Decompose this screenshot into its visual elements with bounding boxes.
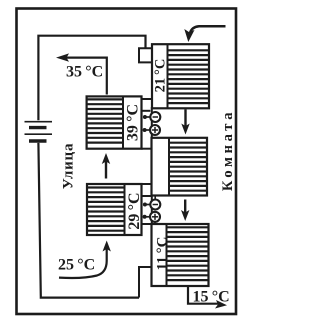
wire: bridge b (block A bottom to block D top) [142, 98, 153, 100]
battery B1 [25, 122, 53, 141]
arrow: down from block A into block B [181, 110, 189, 135]
node: duct notch a (inlet into block A) [139, 48, 152, 62]
svg-text:Комната: Комната [220, 109, 236, 191]
wire: street duct top + left wire upper segment [38, 36, 145, 121]
arrow: 15C out of block C into room (L-shape, points right) [188, 287, 227, 309]
svg-text:Улица: Улица [61, 143, 77, 190]
heat-exchanger block A (21C, room inlet, top right) [152, 44, 209, 108]
arrow: up from block E into block D [102, 153, 110, 179]
wire: right column wall between blocks [151, 107, 153, 139]
heat-exchanger block C (11C, room outlet, bottom right) [152, 224, 209, 286]
terminal minus (upper socket) [143, 112, 160, 122]
svg-text:35 °C: 35 °C [66, 64, 103, 81]
wire: block D bottom lip to wall [142, 148, 152, 150]
heat-exchanger block D (39C, street upper, left) [87, 96, 142, 148]
svg-text:15 °C: 15 °C [193, 289, 230, 306]
heat-exchanger block E (29C, street lower, left) [87, 184, 142, 235]
frame border of figure [17, 9, 237, 315]
svg-text:11 °C: 11 °C [154, 236, 170, 270]
svg-text:29 °C: 29 °C [126, 192, 143, 229]
arrow: down from block B into block C [181, 200, 189, 222]
terminal plus (lower socket) [143, 125, 160, 135]
wire: bridge c (block E top to block B bottom) [142, 183, 152, 185]
heat-exchanger block B (middle right) [152, 138, 208, 196]
terminal minus (upper socket) [143, 200, 160, 210]
arrow: room air into block A (curved, top right) [184, 26, 225, 42]
terminal plus (lower socket) [143, 212, 160, 222]
node: duct notch d (outlet from block C) [139, 267, 152, 298]
arrow: 25C street air into block E (curved, points up) [59, 241, 111, 279]
wire: left wire lower segment + street duct bottom [38, 143, 139, 298]
wire: block C top lip to block E wall [142, 223, 152, 225]
arrow: 35C exit to street (points left) with stub from block D top [56, 53, 107, 94]
svg-text:25 °C: 25 °C [58, 257, 95, 274]
wire: terminal stubs to block B bottom and block C top [154, 196, 156, 201]
svg-text:39 °C: 39 °C [125, 104, 142, 141]
svg-text:21 °C: 21 °C [152, 59, 168, 93]
